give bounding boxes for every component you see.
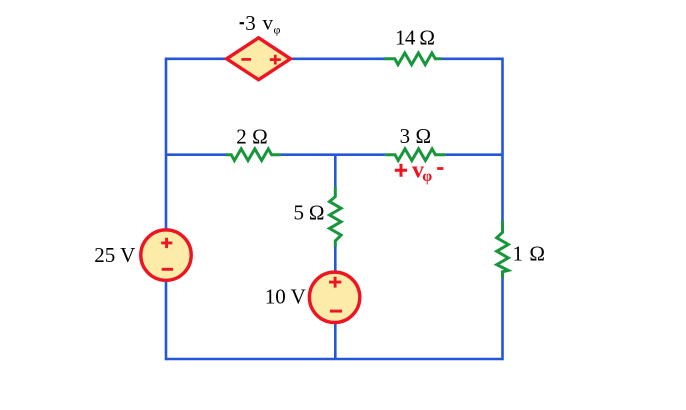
wire top-right: 14ohm resistor to top-right corner [442,57,503,60]
wire top-left: top-left corner to dependent source [166,57,227,60]
svg-text:φ: φ [274,23,281,37]
svg-text:3: 3 [245,11,256,35]
svg-text:5 Ω: 5 Ω [294,201,325,225]
wire middle vertical mid: 5ohm resistor down to 10V source [334,247,337,272]
resistor 2 ohm (middle row left) [226,124,281,160]
svg-text:14 Ω: 14 Ω [395,26,435,50]
svg-text:1 Ω: 1 Ω [513,242,546,266]
wire right rail upper: top-right corner down to 1ohm resistor [501,58,504,222]
resistor 3 ohm (middle row right) [385,124,445,161]
svg-text:25 V: 25 V [94,243,135,267]
svg-text:φ: φ [422,168,432,185]
svg-text:2 Ω: 2 Ω [236,124,268,148]
resistor 5 ohm (middle vertical branch) [294,187,342,247]
wire middle vertical lower: 10V source down to bottom rail [334,323,337,359]
wire left rail lower: 25V source down to bottom-left corner [165,281,168,361]
wire right rail lower: 1ohm resistor down to bottom-right corner [501,278,504,360]
wire left rail upper: top-left corner down to 25V source [165,58,168,230]
resistor 1 ohm (right rail) [497,221,545,279]
resistor 14 ohm (top branch) [384,26,442,65]
wire middle vertical upper: middle node down to 5ohm resistor [334,155,337,187]
svg-text:v: v [262,11,273,35]
wire middle row left: left rail to 2ohm resistor [166,153,226,156]
label + v_phi - (voltage across 3 ohm resistor, red) [395,158,444,186]
wire bottom rail [166,358,503,361]
wire top-middle: dependent source to 14ohm resistor [290,57,384,60]
voltage source 25V (circle) [94,230,191,280]
svg-text:3 Ω: 3 Ω [400,124,432,148]
svg-text:10 V: 10 V [265,285,306,309]
wire middle row right: 3ohm resistor to right rail [445,153,502,156]
wire middle row center: 2ohm resistor to 3ohm resistor [281,153,385,156]
dependent source -3v_phi (diamond) [227,11,291,80]
voltage source 10V (circle) [265,272,360,322]
